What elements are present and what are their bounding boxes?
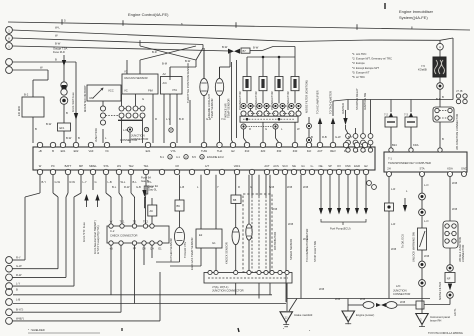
svg-text:KOa6B: KOa6B — [418, 68, 427, 72]
svg-text:L-B: L-B — [180, 185, 184, 189]
svg-text:J7: J7 — [170, 128, 173, 132]
svg-text:VTA: VTA — [172, 88, 177, 92]
svg-text:B8: B8 — [233, 198, 237, 202]
svg-text:L/O: L/O — [396, 284, 400, 288]
pin #30 — [276, 142, 281, 147]
svg-text:SPEED SENSOR: SPEED SENSOR — [289, 239, 293, 260]
wire W-L bus — [12, 30, 453, 42]
rule tick — [122, 20, 124, 26]
svg-text:B: B — [311, 135, 313, 139]
svg-text:OX: OX — [337, 164, 341, 168]
fuel pump off-page arrows — [320, 175, 322, 208]
svg-text:ENGINE ECU: ENGINE ECU — [207, 155, 224, 159]
svg-text:E1: E1 — [158, 247, 162, 251]
pin IGF — [306, 142, 311, 147]
svg-text:2H: 2H — [387, 167, 390, 171]
svg-text:7-2: 7-2 — [384, 113, 388, 117]
svg-text:B-2: B-2 — [24, 93, 29, 97]
splice row3 — [241, 124, 246, 129]
pin — [219, 169, 224, 174]
wire — [63, 104, 65, 123]
splice row1 col3 — [273, 103, 278, 108]
svg-text:TO TACHOMETER: TO TACHOMETER — [329, 91, 333, 114]
wire kink — [262, 47, 273, 51]
svg-text:IGF: IGF — [307, 149, 312, 153]
tdcl arrow — [343, 118, 347, 125]
svg-text:W-B: W-B — [303, 185, 308, 189]
pin VAF — [88, 142, 93, 147]
wires down — [163, 94, 165, 143]
noise filter box — [445, 273, 455, 283]
svg-text:*2: Europe M/T, Germany w/ TRC: *2: Europe M/T, Germany w/ TRC — [352, 57, 392, 61]
unlock warning chain — [421, 177, 423, 194]
junction circles col — [100, 106, 105, 111]
svg-text:E02: E02 — [74, 149, 79, 153]
off page arrow ST1 — [84, 194, 88, 201]
sensor engine coolant temp — [200, 78, 208, 95]
power bus immobiliser — [348, 99, 453, 101]
svg-text:B7: B7 — [243, 49, 247, 53]
fuse EF1 box — [58, 123, 71, 131]
connector circle G-W — [6, 265, 13, 272]
svg-text:VTA: VTA — [170, 149, 175, 153]
check connector top pins — [109, 224, 113, 228]
svg-text:B-Y(*): B-Y(*) — [16, 308, 23, 312]
wire — [439, 50, 441, 57]
svg-text:THA: THA — [217, 149, 223, 153]
connector circle 4 — [6, 59, 13, 66]
svg-text:From ‘IGN’ Fuse: From ‘IGN’ Fuse — [71, 92, 75, 112]
splice2 — [419, 209, 426, 216]
splice — [419, 193, 426, 200]
svg-text:JUNCTION CONNECTOR: JUNCTION CONNECTOR — [212, 289, 244, 293]
pin B — [50, 142, 55, 147]
ECU engine control unit box — [33, 147, 375, 170]
switch unlock warning — [418, 228, 427, 250]
svg-text:CHECK CONNECTOR: CHECK CONNECTOR — [110, 234, 137, 238]
ground bus 1 — [13, 294, 272, 296]
svg-text:G1: G1 — [212, 241, 216, 245]
svg-text:R: R — [238, 185, 240, 189]
svg-text:W-L: W-L — [121, 180, 126, 184]
svg-text:L-Y: L-Y — [166, 117, 170, 121]
sensor throttle position box — [161, 77, 183, 95]
svg-text:UNLOCK WARNING SW: UNLOCK WARNING SW — [412, 232, 416, 262]
svg-text:B-M: B-M — [162, 62, 168, 66]
svg-text:8-5: 8-5 — [192, 155, 196, 159]
svg-text:L-R: L-R — [391, 222, 395, 226]
wire B-W cont — [250, 50, 262, 52]
svg-text:#10: #10 — [245, 149, 250, 153]
distributor pickup coil — [246, 224, 252, 240]
relay 7-3 — [405, 117, 417, 127]
splice bowtie on B-W — [228, 49, 240, 54]
svg-text:G1: G1 — [301, 164, 305, 168]
svg-text:B: B — [16, 288, 18, 292]
svg-text:B-R: B-R — [152, 50, 157, 54]
connector circle R-W — [6, 274, 13, 281]
transponder key amplifier dark box — [433, 57, 446, 77]
svg-text:TO COMBINATION METER: TO COMBINATION METER — [305, 229, 309, 262]
sensor intake air temp — [215, 78, 223, 95]
svg-text:G: G — [250, 185, 252, 189]
connector circle B — [6, 289, 13, 296]
svg-text:R-Y: R-Y — [16, 256, 21, 260]
wire into V7 — [139, 60, 141, 74]
pin E02 — [73, 142, 78, 147]
top column tick 1 — [384, 3, 386, 9]
svg-text:B: B — [66, 111, 68, 115]
oxygen wires — [179, 175, 181, 200]
svg-text:NE: NE — [292, 164, 296, 168]
junction connector J7 J8 box — [204, 273, 292, 284]
svg-text:L-B: L-B — [16, 298, 20, 302]
svg-text:W: W — [39, 164, 42, 168]
wire from W bus down — [202, 45, 204, 49]
svg-text:G: G — [265, 127, 267, 131]
ref box on wire — [148, 205, 157, 216]
splice row2 col2 — [257, 111, 262, 116]
svg-text:R-W: R-W — [124, 185, 130, 189]
svg-text:KDA: KDA — [447, 167, 453, 171]
bus feed to tach wire — [332, 101, 334, 116]
extra junction circles — [128, 127, 133, 132]
connector circle bus 2 — [6, 35, 13, 42]
pin E01 — [60, 142, 65, 147]
pin E1 — [354, 142, 359, 147]
svg-text:*5: Europe A/T: *5: Europe A/T — [352, 70, 370, 74]
transponder top pins — [346, 148, 350, 152]
svg-text:TEMP SENSOR: TEMP SENSOR — [210, 98, 214, 118]
pin #20 — [260, 142, 265, 147]
svg-text:A/C: A/C — [163, 81, 168, 85]
wire up — [169, 67, 171, 77]
splice4 — [419, 280, 426, 287]
svg-text:G-: G- — [311, 164, 314, 168]
svg-text:CONNECTOR: CONNECTOR — [120, 138, 137, 142]
chain KDA right — [449, 177, 451, 187]
wire drop to circle A — [439, 40, 441, 43]
bottom connector oval 1 — [347, 299, 349, 312]
injector #10 — [243, 77, 251, 91]
wire to relay — [12, 69, 48, 71]
brace fuel pump — [321, 219, 366, 225]
svg-text:TRANSPONDER KEY COMPUTER: TRANSPONDER KEY COMPUTER — [388, 161, 431, 165]
svg-text:Y-G: Y-G — [221, 117, 226, 121]
svg-text:GND: GND — [461, 167, 467, 171]
svg-text:B-W: B-W — [185, 59, 191, 63]
small box — [416, 301, 424, 309]
svg-text:EGR GAS TEMP SENSOR: EGR GAS TEMP SENSOR — [190, 237, 194, 270]
wire — [63, 131, 65, 143]
svg-text:*1: w/o TRC: *1: w/o TRC — [352, 52, 366, 56]
stub STA — [92, 175, 94, 190]
wire into throttle — [195, 60, 197, 67]
svg-text:G: G — [95, 180, 97, 184]
wire — [439, 89, 441, 107]
svg-text:TE2: TE2 — [129, 164, 134, 168]
relay 7-2 — [385, 117, 397, 127]
svg-text:L-W: L-W — [123, 128, 128, 132]
svg-text:CONNECTOR: CONNECTOR — [461, 245, 465, 262]
svg-text:G-W: G-W — [16, 264, 22, 268]
temp sensor wire up — [203, 48, 205, 78]
connector circle L-Y — [6, 283, 13, 290]
svg-text:TE1: TE1 — [144, 164, 149, 168]
svg-text:TO A/C AMPLIFIER: TO A/C AMPLIFIER — [316, 90, 320, 114]
off page arrow neutral start — [95, 194, 99, 201]
svg-text:*3: Europe: *3: Europe — [352, 61, 365, 65]
svg-text:TO EGR VSV: TO EGR VSV — [183, 241, 187, 258]
svg-text:STA: STA — [103, 164, 108, 168]
wire relay top bend — [33, 79, 48, 81]
feed bus dots — [262, 56, 265, 59]
circle 7 8 wires — [12, 311, 121, 313]
pin #40 — [292, 142, 297, 147]
svg-text:E2: E2 — [199, 233, 203, 237]
svg-text:Fuel Pump(ECU): Fuel Pump(ECU) — [330, 227, 351, 231]
svg-text:VACUUM SENSOR: VACUUM SENSOR — [124, 76, 148, 80]
connector circle L-B — [6, 299, 13, 306]
sensor V7 vacuum box — [122, 74, 158, 94]
svg-text:W-B: W-B — [424, 254, 429, 258]
svg-text:G-R: G-R — [206, 117, 211, 121]
connector circle R-Y — [6, 257, 13, 264]
svg-text:EF1: EF1 — [60, 126, 65, 130]
wire B-W bus — [12, 46, 230, 51]
svg-text:TOYOTA COROLLA WIRING: TOYOTA COROLLA WIRING — [428, 331, 463, 335]
wire vaf down — [102, 101, 104, 106]
svg-text:W-B: W-B — [272, 207, 277, 211]
svg-text:S1O: S1O — [282, 164, 287, 168]
splice ball — [60, 97, 68, 105]
splice5 — [447, 265, 454, 272]
svg-text:7-5: 7-5 — [421, 64, 425, 68]
svg-text:B-W: B-W — [66, 136, 72, 140]
svg-text:Engine (Lower): Engine (Lower) — [356, 313, 374, 317]
staircase wires circles 1-4 — [39, 175, 41, 193]
distributor dashed box — [243, 194, 272, 272]
svg-text:L-R: L-R — [391, 187, 395, 191]
shielded dashed wires — [251, 196, 253, 270]
svg-text:W-B: W-B — [269, 185, 274, 189]
relay EFI main box — [22, 97, 44, 117]
svg-text:THW: THW — [201, 149, 208, 153]
svg-text:A: A — [439, 45, 441, 49]
connector circle bus 1 — [6, 27, 13, 34]
svg-text:STARTER RELAY: STARTER RELAY — [355, 88, 359, 110]
svg-text:* : SHIELDED: * : SHIELDED — [28, 328, 45, 332]
bottom left underline — [28, 332, 100, 334]
pin IGT — [343, 142, 348, 147]
svg-text:TEMP SENSOR: TEMP SENSOR — [227, 98, 231, 118]
injector #30 — [275, 77, 283, 91]
svg-text:J/B JUNCTION CONNECTOR: J/B JUNCTION CONNECTOR — [455, 114, 459, 150]
splice row1 col2 — [257, 103, 262, 108]
wire relay down — [32, 117, 34, 143]
temp sensor wires — [203, 96, 205, 143]
wire relay up — [32, 80, 34, 97]
down arrow offpage — [403, 205, 407, 212]
arrow down — [62, 60, 66, 66]
svg-text:NF: NF — [447, 277, 451, 281]
svg-text:C8: C8 — [175, 164, 179, 168]
svg-text:R: R — [155, 117, 157, 121]
injector junction busbar — [240, 116, 298, 122]
svg-text:Y: Y — [217, 185, 219, 189]
svg-text:B-L: B-L — [112, 185, 117, 189]
svg-text:7-1: 7-1 — [388, 157, 392, 161]
svg-text:W-B: W-B — [391, 247, 396, 251]
connector small box — [385, 203, 394, 211]
splice row2 col1 — [241, 111, 246, 116]
svg-text:W-R: W-R — [148, 185, 153, 189]
arrow connector dark — [74, 113, 78, 120]
svg-text:8-1: 8-1 — [160, 155, 164, 159]
svg-text:B-W: B-W — [222, 45, 228, 49]
rule tick — [356, 24, 358, 30]
svg-text:REV: REV — [330, 149, 336, 153]
svg-text:W-B(*): W-B(*) — [16, 316, 24, 320]
knock wires — [235, 203, 237, 227]
svg-text:SP: SP — [328, 164, 332, 168]
pin VTA — [170, 142, 175, 147]
check connector feed jogs — [105, 175, 107, 193]
svg-text:BATT: BATT — [65, 164, 72, 168]
wires out of check connector bottom — [110, 245, 112, 295]
svg-text:7-3: 7-3 — [404, 113, 408, 117]
junction connector block — [433, 107, 454, 122]
svg-text:EGR: EGR — [354, 164, 360, 168]
svg-text:B: B — [442, 137, 444, 141]
connector circle W-B(*) — [6, 318, 13, 325]
pin E — [362, 142, 367, 147]
svg-text:B: B — [55, 58, 57, 62]
potentiometer arrow — [93, 88, 103, 98]
wire W-B long 2 — [285, 175, 287, 302]
svg-text:Engine Immobiliser: Engine Immobiliser — [399, 9, 434, 14]
svg-text:IGNITION SW: IGNITION SW — [363, 93, 367, 110]
svg-text:E2: E2 — [364, 164, 368, 168]
pin #10 — [244, 142, 249, 147]
svg-text:CONNECTOR: CONNECTOR — [393, 292, 410, 296]
svg-text:From 'ST1' Fuse: From 'ST1' Fuse — [82, 222, 86, 242]
splice circle — [437, 83, 444, 90]
connector circle — [447, 292, 454, 299]
wire diagonal cross B — [140, 46, 196, 60]
svg-text:W-B: W-B — [360, 297, 365, 301]
wire — [126, 66, 128, 74]
svg-text:+B: +B — [38, 149, 42, 153]
svg-text:E21: E21 — [146, 149, 151, 153]
svg-text:B-R: B-R — [436, 97, 441, 101]
connector circle bus 3 — [6, 43, 13, 50]
svg-text:G-W: G-W — [55, 180, 61, 184]
svg-text:ACS: ACS — [273, 164, 279, 168]
svg-text:C-2: C-2 — [110, 229, 115, 233]
svg-text:& 'ST2' Fuse(A/T)(7.5A): & 'ST2' Fuse(A/T)(7.5A) — [96, 225, 100, 254]
svg-text:J7: J7 — [145, 128, 148, 132]
svg-text:KNK: KNK — [345, 164, 351, 168]
wire to IGN drop — [12, 61, 76, 63]
ground instrument panel — [421, 309, 423, 314]
ref circle small — [367, 181, 372, 186]
svg-text:VC: VC — [105, 149, 109, 153]
svg-text:EFI M/R: EFI M/R — [17, 106, 21, 116]
svg-text:A2: A2 — [163, 72, 167, 76]
svg-text:STOP LIGHT SW: STOP LIGHT SW — [313, 241, 317, 262]
pin — [249, 169, 254, 174]
svg-text:brace RH: brace RH — [430, 319, 441, 323]
svg-text:DISTRIBUTOR: DISTRIBUTOR — [273, 232, 277, 250]
pin VC — [104, 142, 109, 147]
bottom wire to panel ground — [348, 304, 363, 306]
ref box on oxygen wire — [175, 200, 184, 211]
pin E21 — [145, 142, 150, 147]
svg-text:R-W: R-W — [70, 180, 76, 184]
svg-text:E01: E01 — [61, 149, 66, 153]
down arrow — [448, 284, 452, 291]
pin +B — [37, 142, 42, 147]
transponder key computer box — [384, 152, 467, 172]
svg-text:MREL: MREL — [89, 164, 97, 168]
svg-text:G-W: G-W — [335, 135, 341, 139]
knock ref box — [235, 175, 237, 195]
svg-text:L-O: L-O — [424, 219, 428, 223]
ladder junction block — [443, 221, 458, 248]
svg-text:B9: B9 — [177, 204, 181, 208]
wire W bus — [12, 38, 203, 45]
svg-text:#20: #20 — [261, 149, 266, 153]
svg-text:B: B — [78, 136, 80, 140]
svg-text:THROTTLE POSITION SENSOR: THROTTLE POSITION SENSOR — [186, 63, 190, 103]
injector feed bus — [247, 56, 295, 58]
svg-text:KNOCK SENSOR: KNOCK SENSOR — [225, 242, 229, 264]
svg-text:Instrument panel: Instrument panel — [430, 315, 450, 319]
injector #20 — [259, 77, 267, 91]
wire down from junctions — [102, 129, 104, 143]
bottom rule ticks — [121, 328, 123, 331]
check connector bottom pins — [109, 241, 113, 245]
ref circles right — [456, 94, 460, 98]
svg-text:Gau 5L: Gau 5L — [141, 179, 150, 183]
svg-text:*4: Except Europe M/T: *4: Except Europe M/T — [352, 66, 379, 70]
splice row2 col4 — [289, 111, 294, 116]
sensor VAF box — [87, 85, 121, 101]
wires below junction box — [286, 283, 288, 299]
svg-text:PC: PC — [51, 164, 55, 168]
svg-text:J7 J8: J7 J8 — [456, 89, 463, 93]
pin THA — [217, 142, 222, 147]
svg-text:JUNCTION: JUNCTION — [94, 128, 98, 142]
svg-text:R-B: R-B — [322, 135, 327, 139]
svg-text:A6: A6 — [150, 209, 154, 213]
connector pair — [61, 82, 67, 88]
svg-text:To D/L ECU: To D/L ECU — [401, 234, 405, 248]
ground intake manifold — [286, 284, 288, 311]
svg-text:JUNCTION: JUNCTION — [393, 289, 407, 293]
ground bus 3 — [287, 298, 430, 300]
svg-text:B: B — [35, 127, 37, 131]
wires to ECU — [243, 129, 245, 138]
chain 2H wire — [388, 177, 390, 204]
svg-text:MOUNTED ON BODY: MOUNTED ON BODY — [83, 85, 87, 112]
svg-text:#40: #40 — [293, 149, 298, 153]
svg-text:W-B: W-B — [452, 207, 457, 211]
wire — [273, 46, 295, 48]
svg-text:4-1: 4-1 — [176, 155, 180, 159]
svg-text:B: B — [52, 149, 54, 153]
